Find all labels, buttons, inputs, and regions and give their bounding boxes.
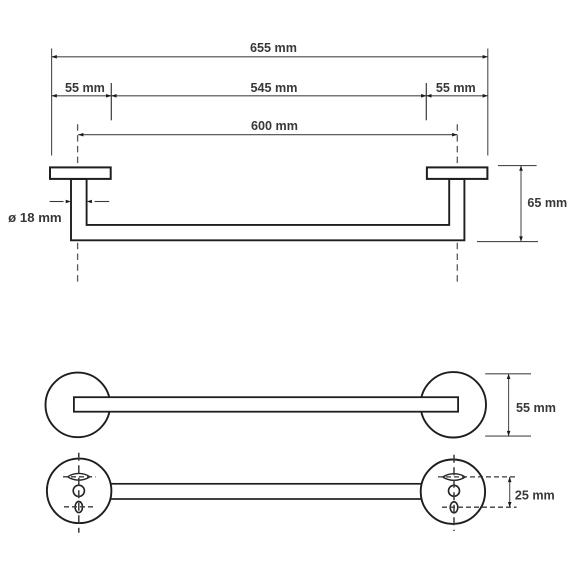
dimension line row 2 (55 / 545 / 55)	[52, 94, 488, 98]
wall rosette right (front)	[421, 372, 486, 437]
tick right (x=426.3)	[425, 83, 427, 120]
extension line right (655 mm)	[487, 49, 489, 156]
vertical centerline right rosette	[453, 455, 455, 531]
screw hole right	[449, 485, 460, 496]
wall plug right (side)	[443, 474, 465, 481]
svg-text:65 mm: 65 mm	[527, 196, 567, 210]
horizontal centerline right screw	[442, 506, 517, 508]
dimension line 655 mm	[52, 55, 488, 59]
svg-text:55 mm: 55 mm	[65, 81, 105, 95]
svg-text:55 mm: 55 mm	[516, 401, 556, 415]
vertical centerline left rosette	[78, 453, 80, 533]
extension line left (655 mm)	[51, 49, 53, 156]
tick left (x=111.3)	[110, 83, 112, 120]
mount plate right (side view)	[427, 167, 488, 179]
dimension line 600 mm	[78, 133, 457, 137]
towel bar (mounting view)	[79, 484, 453, 499]
mount plate left (side view)	[50, 167, 111, 179]
dimension line 55 mm (vertical)	[507, 374, 511, 436]
65 mm extension line bottom	[477, 241, 538, 243]
towel bar tube (side view)	[71, 179, 464, 240]
screw hole left	[73, 485, 84, 496]
horizontal centerline left plug	[63, 476, 96, 478]
dimension line 25 mm	[508, 477, 512, 507]
svg-text:600 mm: 600 mm	[251, 119, 298, 133]
svg-text:545 mm: 545 mm	[251, 81, 298, 95]
ø 18 mm arrows	[50, 200, 110, 204]
towel bar (front view)	[74, 397, 458, 412]
65 mm extension line top	[498, 165, 537, 167]
wall rosette left (front)	[46, 373, 111, 438]
svg-text:ø 18 mm: ø 18 mm	[8, 210, 62, 225]
svg-text:655 mm: 655 mm	[250, 41, 297, 55]
wall rosette right (mounting)	[421, 460, 485, 524]
svg-text:55 mm: 55 mm	[436, 81, 476, 95]
wall rosette left (mounting)	[47, 459, 112, 523]
horizontal centerline right plug	[438, 476, 517, 478]
centerline dashed right post	[456, 124, 458, 281]
55 mm extension line bottom	[485, 435, 531, 437]
dimension line 65 mm	[519, 166, 523, 242]
horizontal centerline left screw	[64, 506, 95, 508]
screw left (front)	[75, 501, 82, 512]
svg-text:25 mm: 25 mm	[515, 489, 555, 503]
wall plug left (side)	[68, 473, 90, 480]
55 mm extension line top	[485, 373, 531, 375]
screw right (front)	[450, 502, 458, 513]
centerline dashed left post	[77, 124, 79, 281]
